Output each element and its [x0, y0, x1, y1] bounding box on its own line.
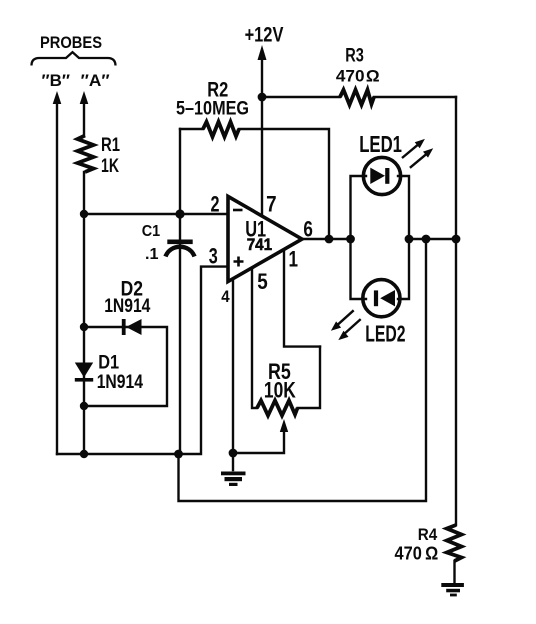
svg-text:470 Ω: 470 Ω: [336, 66, 380, 85]
svg-text:D1: D1: [98, 353, 119, 374]
svg-text:R4: R4: [418, 525, 438, 544]
svg-text:470 Ω: 470 Ω: [395, 544, 439, 564]
svg-text:R3: R3: [345, 46, 364, 67]
svg-text:741: 741: [247, 235, 272, 254]
svg-text:R1: R1: [101, 135, 120, 156]
svg-text:10K: 10K: [264, 378, 296, 403]
svg-text:5–10MEG: 5–10MEG: [176, 99, 249, 120]
svg-text:.1: .1: [145, 246, 159, 263]
svg-text:LED1: LED1: [359, 131, 402, 157]
svg-text:1K: 1K: [101, 156, 119, 177]
svg-text:5: 5: [257, 269, 268, 294]
svg-text:PROBES: PROBES: [40, 33, 102, 52]
svg-text:″A″: ″A″: [81, 71, 110, 90]
svg-text:2: 2: [211, 191, 220, 216]
svg-text:1N914: 1N914: [104, 296, 151, 317]
svg-text:1N914: 1N914: [97, 372, 144, 393]
svg-text:3: 3: [209, 244, 218, 269]
svg-text:1: 1: [289, 247, 299, 272]
svg-text:4: 4: [221, 287, 230, 306]
svg-text:6: 6: [303, 217, 313, 242]
svg-text:+12V: +12V: [245, 23, 284, 46]
svg-text:7: 7: [266, 191, 277, 216]
svg-text:″B″: ″B″: [42, 71, 71, 90]
svg-text:LED2: LED2: [365, 321, 405, 347]
svg-text:C1: C1: [142, 223, 160, 240]
